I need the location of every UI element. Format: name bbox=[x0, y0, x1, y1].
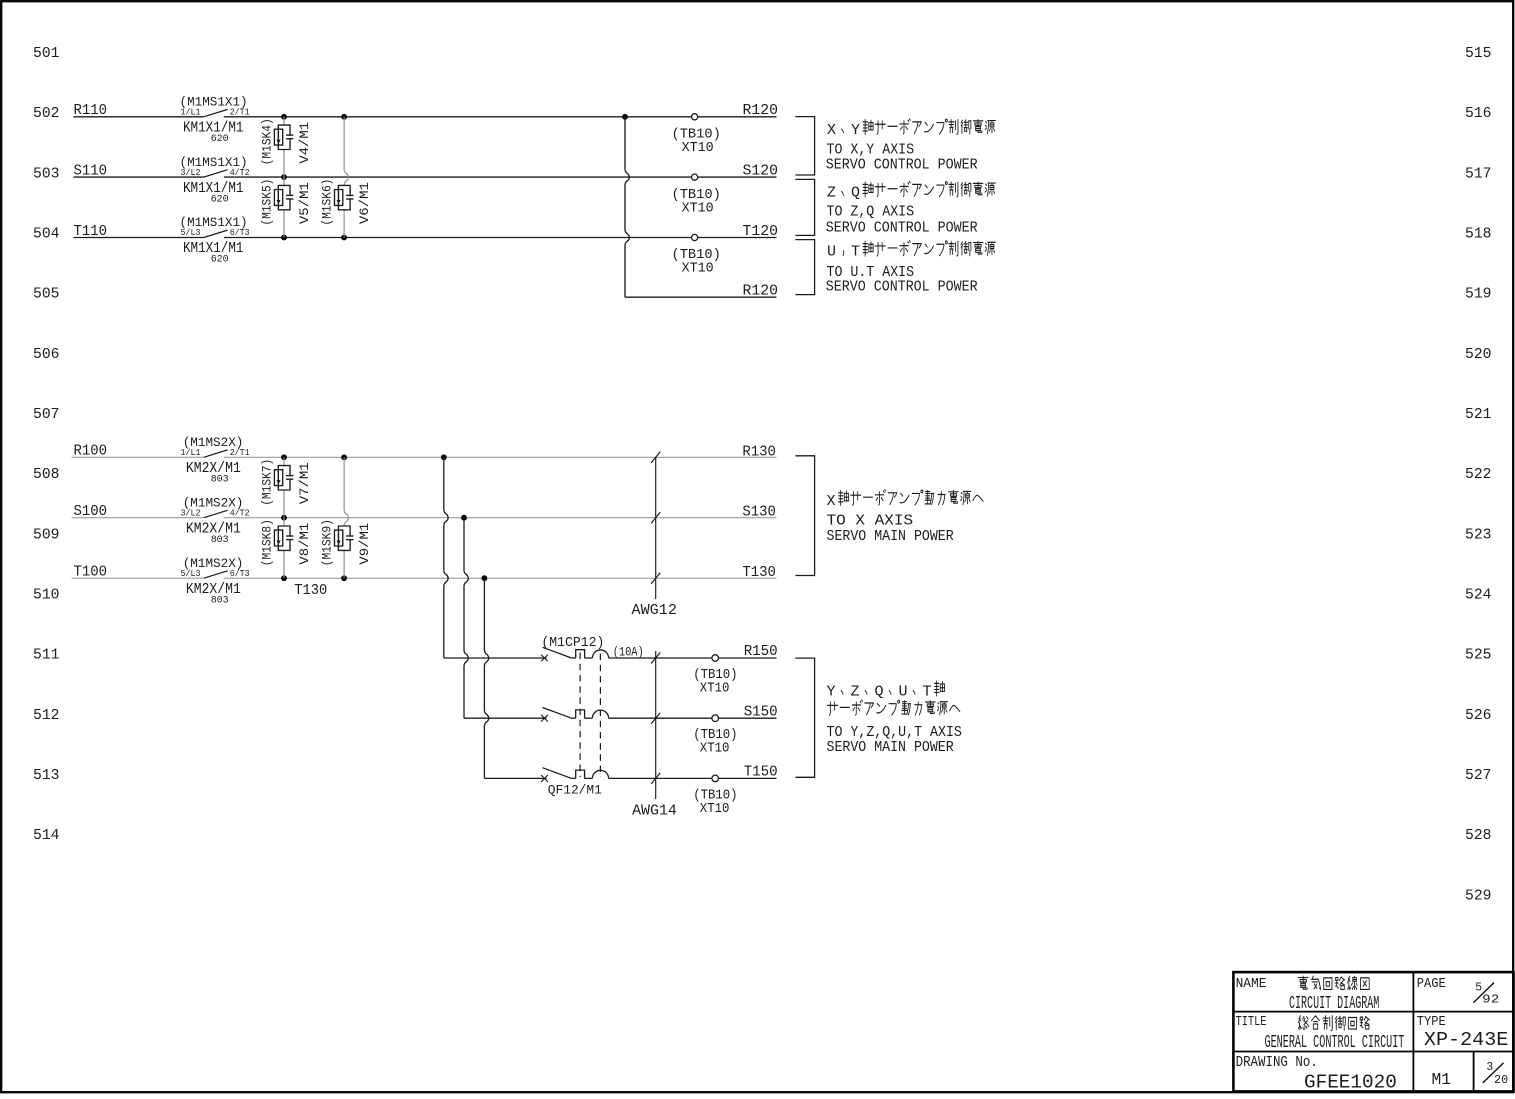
bracket U,T axis group bbox=[795, 240, 814, 295]
svg-text:511: 511 bbox=[33, 647, 60, 664]
label V8/M1 bbox=[297, 522, 312, 564]
svg-text:517: 517 bbox=[1465, 165, 1492, 182]
svg-text:Y: Y bbox=[827, 684, 836, 701]
svg-text:GENERAL CONTROL CIRCUIT: GENERAL CONTROL CIRCUIT bbox=[1265, 1033, 1405, 1053]
svg-text:NAME: NAME bbox=[1236, 977, 1267, 992]
svg-text:XP-243E: XP-243E bbox=[1424, 1029, 1509, 1051]
svg-text:6/T3: 6/T3 bbox=[230, 568, 250, 579]
svg-text:1/L1: 1/L1 bbox=[181, 447, 201, 458]
surge suppressor V4/M1 bbox=[274, 117, 293, 177]
svg-text:XT10: XT10 bbox=[700, 742, 730, 757]
wire drop S100 to breaker pole 2 bbox=[463, 518, 465, 571]
contactor contact KM1X1/M1 pins 5/L3/6/T3 bbox=[204, 230, 228, 237]
svg-text:R120: R120 bbox=[743, 282, 779, 299]
wire R120 right segment bbox=[224, 116, 777, 118]
bracket X axis group bbox=[795, 456, 814, 576]
svg-text:R130: R130 bbox=[742, 443, 776, 460]
surge suppressor V5/M1 bbox=[274, 177, 293, 237]
svg-text:522: 522 bbox=[1465, 466, 1492, 483]
surge suppressor V9/M1 bbox=[335, 526, 354, 578]
svg-text:20: 20 bbox=[1494, 1074, 1508, 1087]
svg-text:3: 3 bbox=[1486, 1061, 1493, 1074]
wire S110 left segment bbox=[74, 176, 204, 178]
svg-text:T110: T110 bbox=[74, 223, 108, 240]
contactor contact KM2X/M1 pins 1/L1/2/T1 bbox=[204, 450, 228, 457]
wire drop R100 to breaker pole 1 bbox=[443, 457, 445, 509]
svg-text:Q: Q bbox=[875, 684, 884, 701]
svg-text:526: 526 bbox=[1465, 707, 1492, 724]
node R100/V9 junction bbox=[341, 454, 347, 460]
label (M1SK4) bbox=[260, 118, 275, 165]
svg-text:2/T1: 2/T1 bbox=[230, 107, 250, 118]
label V6/M1 bbox=[357, 182, 372, 224]
svg-text:R120: R120 bbox=[743, 102, 779, 119]
breaker linkage dashed lines bbox=[579, 653, 581, 778]
svg-text:523: 523 bbox=[1465, 526, 1492, 543]
surge suppressor V6 stem with hop over S110 bbox=[343, 117, 345, 169]
wire S130 right segment bbox=[224, 517, 777, 519]
svg-text:V5/M1: V5/M1 bbox=[297, 182, 312, 224]
svg-text:803: 803 bbox=[211, 534, 229, 546]
svg-text:514: 514 bbox=[33, 827, 60, 844]
svg-text:515: 515 bbox=[1465, 45, 1492, 62]
svg-text:XT10: XT10 bbox=[682, 201, 714, 216]
svg-text:509: 509 bbox=[33, 526, 60, 543]
svg-text:T: T bbox=[923, 684, 932, 701]
svg-text:M1: M1 bbox=[1432, 1071, 1452, 1090]
svg-text:620: 620 bbox=[211, 193, 229, 205]
svg-text:Z: Z bbox=[827, 185, 836, 202]
label V9/M1 bbox=[357, 522, 372, 564]
svg-text:528: 528 bbox=[1465, 827, 1492, 844]
svg-text:4/T2: 4/T2 bbox=[230, 507, 250, 518]
svg-text:SERVO MAIN POWER: SERVO MAIN POWER bbox=[827, 528, 954, 545]
bracket Z,Q axis group bbox=[795, 179, 814, 235]
node S110/V4-V5 junction bbox=[281, 174, 287, 180]
node T100/V9 junction bbox=[341, 575, 347, 581]
bracket Y,Z,Q,U,T axis group bbox=[795, 658, 814, 777]
node S100 drop junction bbox=[461, 515, 467, 521]
svg-text:SERVO CONTROL POWER: SERVO CONTROL POWER bbox=[826, 279, 978, 296]
svg-text:R150: R150 bbox=[744, 643, 778, 660]
svg-text:5: 5 bbox=[1475, 981, 1482, 994]
node R100 drop junction bbox=[441, 454, 447, 460]
svg-text:525: 525 bbox=[1465, 647, 1492, 664]
svg-text:R110: R110 bbox=[74, 102, 108, 119]
svg-text:U: U bbox=[827, 244, 836, 261]
svg-text:620: 620 bbox=[211, 133, 229, 145]
breaker pole 1 bbox=[541, 647, 609, 661]
label (M1SK7) bbox=[260, 459, 275, 506]
wire T130 right segment bbox=[224, 577, 777, 579]
svg-text:S130: S130 bbox=[742, 504, 776, 521]
svg-text:3/L2: 3/L2 bbox=[181, 167, 201, 178]
contactor contact KM2X/M1 pins 5/L3/6/T3 bbox=[204, 571, 228, 578]
svg-text:3/L2: 3/L2 bbox=[181, 507, 201, 518]
node T100 drop junction bbox=[482, 575, 488, 581]
svg-text:502: 502 bbox=[33, 105, 60, 122]
svg-text:V4/M1: V4/M1 bbox=[297, 122, 312, 164]
svg-text:T: T bbox=[851, 244, 860, 261]
svg-text:803: 803 bbox=[211, 594, 229, 606]
bracket X,Y axis group bbox=[795, 117, 814, 175]
node R100/V7 junction bbox=[281, 454, 287, 460]
svg-text:501: 501 bbox=[33, 45, 60, 62]
label (M1SK8) bbox=[260, 519, 275, 566]
svg-text:620: 620 bbox=[211, 254, 229, 266]
terminal XT10 on R150 bbox=[712, 655, 719, 662]
svg-text:(M1SK8): (M1SK8) bbox=[260, 519, 275, 566]
wire T150 bbox=[609, 777, 777, 779]
svg-text:2/T1: 2/T1 bbox=[230, 447, 250, 458]
svg-text:GFEE1020: GFEE1020 bbox=[1304, 1072, 1397, 1094]
svg-text:(M1SK9): (M1SK9) bbox=[320, 519, 335, 566]
svg-text:AWG12: AWG12 bbox=[632, 602, 677, 619]
wire R130 right segment bbox=[224, 456, 777, 458]
svg-text:6/T3: 6/T3 bbox=[230, 227, 250, 238]
label (M1SK5) bbox=[260, 179, 275, 226]
svg-text:(M1CP12): (M1CP12) bbox=[541, 636, 604, 651]
label V5/M1 bbox=[297, 182, 312, 224]
svg-text:504: 504 bbox=[33, 226, 60, 243]
svg-text:519: 519 bbox=[1465, 286, 1492, 303]
terminal XT10 on S150 bbox=[712, 715, 719, 722]
svg-text:524: 524 bbox=[1465, 587, 1492, 604]
svg-text:V7/M1: V7/M1 bbox=[297, 462, 312, 504]
svg-text:5/L3: 5/L3 bbox=[181, 227, 201, 238]
wire R100 left segment bbox=[72, 456, 204, 458]
svg-text:T150: T150 bbox=[744, 764, 778, 781]
wire lower R120 horizontal bbox=[625, 296, 777, 298]
wire S120 right segment bbox=[224, 176, 777, 178]
wire T120 right segment bbox=[224, 237, 777, 239]
svg-text:S110: S110 bbox=[74, 163, 108, 180]
breaker pole 2 bbox=[541, 708, 609, 722]
svg-text:Q: Q bbox=[851, 185, 860, 202]
wire S150 bbox=[609, 717, 777, 719]
surge suppressor V9 stem with hop over S100 bbox=[343, 457, 345, 509]
svg-text:S100: S100 bbox=[74, 503, 108, 520]
svg-text:X: X bbox=[827, 493, 836, 510]
wire R150 bbox=[609, 657, 777, 659]
svg-text:506: 506 bbox=[33, 346, 60, 363]
svg-text:TO Z,Q AXIS: TO Z,Q AXIS bbox=[827, 204, 915, 221]
svg-text:XT10: XT10 bbox=[682, 262, 714, 277]
svg-text:518: 518 bbox=[1465, 226, 1492, 243]
svg-text:T130: T130 bbox=[294, 582, 327, 599]
svg-text:S120: S120 bbox=[743, 163, 779, 180]
svg-text:(M1SK7): (M1SK7) bbox=[260, 459, 275, 506]
svg-text:XT10: XT10 bbox=[700, 802, 730, 817]
node R110/V6 junction bbox=[341, 114, 347, 120]
svg-text:1/L1: 1/L1 bbox=[181, 107, 201, 118]
wire R110 left segment bbox=[74, 116, 204, 118]
breaker pole 3 bbox=[541, 768, 609, 782]
contactor contact KM2X/M1 pins 3/L2/4/T2 bbox=[204, 510, 228, 517]
wire S100 left segment bbox=[72, 517, 204, 519]
svg-text:T100: T100 bbox=[74, 564, 108, 581]
wire T100 left segment bbox=[72, 577, 204, 579]
contactor contact KM1X1/M1 pins 1/L1/2/T1 bbox=[204, 109, 228, 116]
terminal XT10 on T150 bbox=[712, 775, 719, 782]
svg-text:XT10: XT10 bbox=[682, 141, 714, 156]
label (M1SK9) bbox=[320, 519, 335, 566]
svg-text:QF12/M1: QF12/M1 bbox=[548, 783, 602, 798]
terminal XT10 on R120 bbox=[692, 114, 698, 120]
wire T110 left segment bbox=[74, 237, 204, 239]
svg-text:U: U bbox=[899, 684, 908, 701]
svg-text:Z: Z bbox=[851, 684, 860, 701]
svg-text:V8/M1: V8/M1 bbox=[297, 522, 312, 564]
label V7/M1 bbox=[297, 462, 312, 504]
svg-text:DRAWING No.: DRAWING No. bbox=[1236, 1055, 1318, 1071]
svg-text:SERVO CONTROL POWER: SERVO CONTROL POWER bbox=[826, 219, 978, 236]
cable bundle marker AWG14 bbox=[655, 651, 657, 799]
svg-text:529: 529 bbox=[1465, 887, 1492, 904]
svg-text:TITLE: TITLE bbox=[1236, 1015, 1267, 1030]
svg-text:513: 513 bbox=[33, 767, 60, 784]
svg-text:S150: S150 bbox=[744, 703, 778, 720]
svg-text:508: 508 bbox=[33, 466, 60, 483]
node R110/V4 junction bbox=[281, 114, 287, 120]
svg-text:512: 512 bbox=[33, 707, 60, 724]
svg-text:(M1SK5): (M1SK5) bbox=[260, 179, 275, 226]
node S100/V7-V8 junction bbox=[281, 515, 287, 521]
svg-text:505: 505 bbox=[33, 286, 60, 303]
svg-text:520: 520 bbox=[1465, 346, 1492, 363]
surge suppressor V8/M1 bbox=[274, 518, 293, 578]
svg-text:T130: T130 bbox=[742, 564, 776, 581]
wire drop T100 to breaker pole 3 bbox=[483, 578, 485, 650]
label V4/M1 bbox=[297, 122, 312, 164]
terminal XT10 on S120 bbox=[692, 174, 698, 180]
node R110 drop junction bbox=[622, 114, 628, 120]
svg-text:PAGE: PAGE bbox=[1417, 977, 1446, 992]
svg-text:T120: T120 bbox=[743, 223, 779, 240]
svg-text:5/L3: 5/L3 bbox=[181, 568, 201, 579]
svg-text:527: 527 bbox=[1465, 767, 1492, 784]
node T110/V5 junction bbox=[281, 235, 287, 241]
svg-text:SERVO MAIN POWER: SERVO MAIN POWER bbox=[827, 739, 954, 756]
svg-text:AWG14: AWG14 bbox=[632, 803, 677, 820]
svg-text:V9/M1: V9/M1 bbox=[357, 522, 372, 564]
svg-text:92: 92 bbox=[1482, 994, 1499, 1007]
svg-text:(M1SK4): (M1SK4) bbox=[260, 118, 275, 165]
svg-text:503: 503 bbox=[33, 165, 60, 182]
label (M1SK6) bbox=[320, 179, 335, 226]
svg-text:507: 507 bbox=[33, 406, 60, 423]
svg-text:521: 521 bbox=[1465, 406, 1492, 423]
svg-text:SERVO CONTROL POWER: SERVO CONTROL POWER bbox=[826, 156, 978, 173]
svg-text:510: 510 bbox=[33, 587, 60, 604]
title block frame bbox=[1233, 972, 1513, 1091]
wire vertical drop R110 to lower R120 with hops over S and T bbox=[624, 117, 626, 169]
svg-text:X: X bbox=[827, 122, 836, 139]
cable bundle marker AWG12 bbox=[655, 457, 657, 599]
node T110/V6 junction bbox=[341, 235, 347, 241]
svg-text:Y: Y bbox=[851, 122, 860, 139]
svg-text:R100: R100 bbox=[74, 443, 108, 460]
contactor contact KM1X1/M1 pins 3/L2/4/T2 bbox=[204, 170, 228, 177]
svg-text:4/T2: 4/T2 bbox=[230, 167, 250, 178]
svg-text:(M1SK6): (M1SK6) bbox=[320, 179, 335, 226]
surge suppressor V6/M1 bbox=[335, 185, 354, 237]
svg-text:803: 803 bbox=[211, 474, 229, 486]
svg-text:516: 516 bbox=[1465, 105, 1492, 122]
svg-text:CIRCUIT DIAGRAM: CIRCUIT DIAGRAM bbox=[1289, 994, 1379, 1014]
svg-text:XT10: XT10 bbox=[700, 682, 730, 697]
svg-text:TYPE: TYPE bbox=[1417, 1015, 1446, 1030]
node T100/V8 junction bbox=[281, 575, 287, 581]
terminal XT10 on T120 bbox=[692, 234, 698, 240]
svg-text:V6/M1: V6/M1 bbox=[357, 182, 372, 224]
surge suppressor V7/M1 bbox=[274, 457, 293, 517]
